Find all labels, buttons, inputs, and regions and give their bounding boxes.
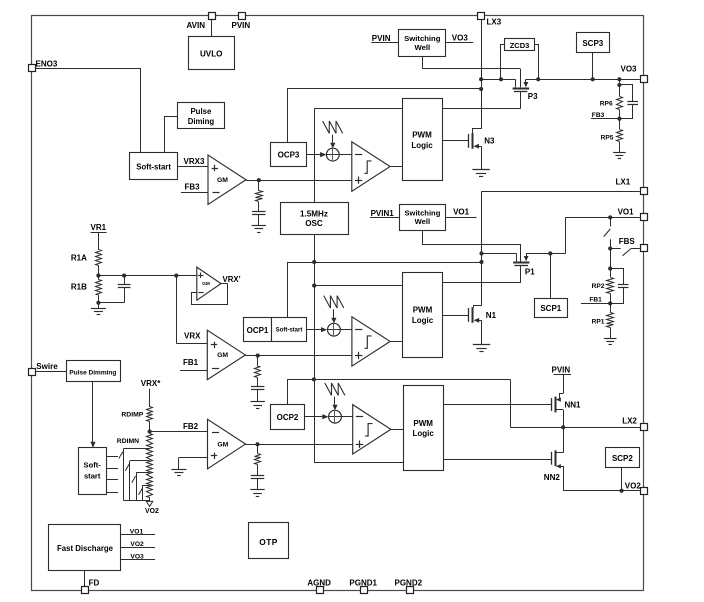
svg-text:SCP2: SCP2 [612, 454, 633, 463]
svg-text:PVIN: PVIN [232, 21, 251, 30]
svg-text:Switching: Switching [404, 34, 441, 43]
svg-text:OTP: OTP [259, 537, 277, 547]
svg-text:RP6: RP6 [600, 101, 613, 108]
svg-text:GM: GM [217, 177, 228, 184]
svg-text:LX1: LX1 [616, 178, 631, 187]
svg-text:PGND1: PGND1 [349, 578, 377, 587]
svg-text:VO2: VO2 [130, 541, 144, 548]
svg-text:VO3: VO3 [621, 65, 638, 74]
svg-text:NN2: NN2 [544, 473, 561, 482]
svg-text:VO2: VO2 [625, 481, 642, 490]
svg-text:VO1: VO1 [618, 207, 635, 216]
svg-text:RDIMP: RDIMP [121, 412, 143, 419]
svg-text:P1: P1 [525, 267, 535, 276]
svg-text:Soft-: Soft- [84, 461, 102, 470]
svg-text:VRX: VRX [184, 332, 201, 341]
svg-text:FB2: FB2 [183, 422, 199, 431]
svg-text:RP2: RP2 [592, 283, 605, 290]
svg-text:Soft-start: Soft-start [276, 328, 303, 334]
svg-text:GM: GM [217, 352, 228, 359]
svg-text:VO3: VO3 [452, 33, 469, 42]
svg-text:P3: P3 [528, 92, 538, 101]
svg-text:VRX3: VRX3 [184, 157, 205, 166]
svg-text:FBS: FBS [619, 237, 636, 246]
svg-text:PVIN: PVIN [552, 365, 571, 374]
svg-text:Diming: Diming [188, 117, 215, 126]
svg-text:Swire: Swire [36, 362, 58, 371]
svg-text:UVLO: UVLO [200, 50, 222, 59]
svg-text:GM: GM [217, 442, 228, 449]
svg-text:AGND: AGND [307, 578, 331, 587]
svg-text:PWM: PWM [412, 131, 432, 140]
svg-text:N1: N1 [486, 311, 497, 320]
svg-text:VO3: VO3 [130, 553, 144, 560]
svg-text:Pulse: Pulse [190, 107, 211, 116]
svg-text:VO1: VO1 [453, 208, 470, 217]
svg-text:RP5: RP5 [601, 134, 614, 141]
svg-text:Logic: Logic [413, 429, 435, 438]
svg-text:NN1: NN1 [565, 401, 582, 410]
svg-text:OCP2: OCP2 [277, 413, 299, 422]
svg-text:SCP3: SCP3 [582, 39, 603, 48]
svg-text:AVIN: AVIN [187, 21, 206, 30]
svg-text:OCP3: OCP3 [278, 150, 300, 159]
svg-text:FB1: FB1 [589, 297, 602, 304]
svg-text:OCP1: OCP1 [247, 326, 269, 335]
svg-text:N3: N3 [484, 137, 495, 146]
svg-text:FB3: FB3 [185, 183, 201, 192]
svg-text:Logic: Logic [412, 316, 434, 325]
svg-text:R1A: R1A [71, 253, 87, 262]
svg-text:Well: Well [414, 43, 430, 52]
svg-text:1.5MHz: 1.5MHz [300, 210, 328, 219]
svg-text:LX2: LX2 [622, 416, 637, 425]
svg-text:LX3: LX3 [487, 18, 502, 27]
svg-text:PVIN: PVIN [372, 34, 391, 43]
svg-text:PVIN1: PVIN1 [371, 209, 395, 218]
svg-text:PWM: PWM [413, 419, 433, 428]
svg-text:Logic: Logic [411, 141, 433, 150]
svg-text:R1B: R1B [71, 282, 87, 291]
svg-text:Fast Discharge: Fast Discharge [57, 544, 114, 553]
svg-text:Soft-start: Soft-start [136, 163, 171, 172]
svg-text:VR1: VR1 [91, 223, 107, 232]
svg-text:RP1: RP1 [592, 319, 605, 326]
svg-text:Well: Well [415, 217, 430, 226]
svg-text:Pulse Dimming: Pulse Dimming [69, 369, 116, 376]
svg-text:PWM: PWM [413, 306, 433, 315]
svg-text:FD: FD [89, 578, 100, 587]
svg-text:GM: GM [202, 281, 210, 287]
svg-text:VO2: VO2 [145, 508, 159, 515]
svg-text:FB3: FB3 [592, 112, 605, 119]
svg-text:SCP1: SCP1 [540, 304, 561, 313]
svg-text:RDIMN: RDIMN [117, 438, 139, 445]
svg-text:FB1: FB1 [183, 358, 199, 367]
svg-text:VO1: VO1 [130, 528, 144, 535]
svg-text:OSC: OSC [305, 219, 323, 228]
svg-text:ZCD3: ZCD3 [510, 41, 530, 50]
svg-text:start: start [84, 472, 101, 481]
svg-text:VRX*: VRX* [141, 379, 161, 388]
svg-text:ENO3: ENO3 [36, 59, 58, 68]
svg-text:PGND2: PGND2 [395, 578, 423, 587]
svg-text:VRX’: VRX’ [223, 275, 241, 284]
